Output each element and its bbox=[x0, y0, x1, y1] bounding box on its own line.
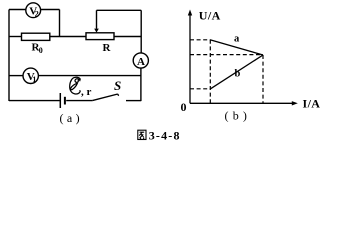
svg-text:a: a bbox=[234, 34, 240, 45]
wire: bottom rail right segment bbox=[126, 100, 141, 102]
graph line b bbox=[211, 55, 264, 89]
rheostat R body bbox=[86, 33, 114, 40]
dashed horizontal at line-a start level bbox=[190, 39, 210, 41]
svg-text:b: b bbox=[235, 69, 241, 80]
wire: slider loop top bbox=[97, 9, 142, 11]
wire: right vertical below ammeter to bottom rail bbox=[140, 68, 142, 101]
wire: slider loop right vertical bbox=[140, 10, 142, 36]
wire: rail between R0 and R bbox=[50, 36, 86, 38]
battery cell: short thick plate bbox=[64, 97, 66, 105]
svg-text:A: A bbox=[137, 56, 145, 68]
dashed vertical at line start x bbox=[209, 40, 211, 103]
wire: right vertical down to ammeter bbox=[140, 37, 142, 54]
svg-text:2: 2 bbox=[35, 9, 39, 18]
graph b: y-axis bbox=[189, 13, 191, 103]
svg-text:(b): (b) bbox=[225, 109, 252, 123]
svg-text:R: R bbox=[103, 42, 112, 54]
switch S blade bbox=[92, 94, 118, 101]
resistor R0 bbox=[22, 33, 50, 40]
svg-text:1: 1 bbox=[32, 75, 36, 84]
wire: V2 right vertical down to R0 rail bbox=[59, 10, 61, 37]
wire: V2 right to corner bbox=[41, 9, 60, 11]
wire: bottom rail left segment bbox=[9, 100, 60, 102]
svg-text:, r: , r bbox=[81, 86, 92, 98]
label EMF script E bbox=[70, 77, 81, 94]
wire: left vertical main bus bbox=[8, 10, 10, 102]
battery cell: long plate bbox=[59, 93, 61, 108]
voltmeter V1 bbox=[23, 68, 38, 83]
svg-text:(a): (a) bbox=[60, 111, 84, 125]
wire: V1 rail left bbox=[9, 75, 23, 77]
rheostat slider arrow bbox=[96, 10, 98, 29]
svg-text:0: 0 bbox=[181, 100, 187, 114]
wire: V1 rail right to the right vertical bbox=[38, 75, 141, 77]
wire: rail from R to right vertical bbox=[114, 36, 141, 38]
svg-text:0: 0 bbox=[39, 46, 43, 55]
svg-text:U/A: U/A bbox=[199, 9, 221, 23]
ammeter A bbox=[133, 53, 148, 68]
svg-text:I/A: I/A bbox=[303, 97, 321, 111]
dashed horizontal at meeting-point level bbox=[190, 54, 263, 56]
wire: bottom rail battery to switch pivot bbox=[66, 100, 92, 102]
caption: hanzi TU (drawn strokes) bbox=[138, 130, 146, 139]
wire: R0 row rail left bbox=[9, 36, 22, 38]
voltmeter V2 bbox=[26, 3, 41, 18]
svg-text:S: S bbox=[114, 78, 121, 93]
dashed horizontal at line-b start level bbox=[190, 88, 211, 90]
svg-text:3-4-8: 3-4-8 bbox=[149, 128, 181, 142]
dashed vertical at meeting point x bbox=[262, 55, 264, 103]
wire: top-left rail to V2 bbox=[9, 9, 26, 11]
graph b: x-axis bbox=[190, 102, 294, 104]
graph line a bbox=[210, 40, 263, 55]
